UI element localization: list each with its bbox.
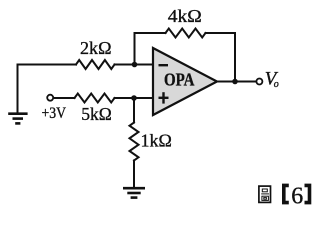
- caption: 【 bracket (drawn): [284, 185, 289, 202]
- node: non-inverting input junction: [131, 95, 137, 101]
- resistor R 4kΩ: [166, 29, 206, 38]
- wire: 1k resistor to bottom ground: [133, 161, 135, 188]
- resistor R 2kΩ: [76, 60, 115, 69]
- wire: 2k resistor to op-amp inverting input: [115, 64, 154, 66]
- svg-text:5kΩ: 5kΩ: [81, 104, 112, 124]
- wire: left horizontal to 2k resistor: [18, 64, 77, 66]
- node: output junction: [232, 79, 238, 85]
- wire: op-amp output to Vo terminal: [217, 81, 256, 83]
- caption: 圖 character (drawn): [259, 186, 271, 202]
- ground (bottom, below 1k): [123, 188, 145, 197]
- svg-text:4kΩ: 4kΩ: [168, 6, 202, 26]
- svg-text:o: o: [274, 79, 279, 90]
- resistor R 1kΩ: [130, 123, 139, 161]
- wire: 5k resistor to op-amp non-inverting input: [115, 97, 154, 99]
- svg-text:OPA: OPA: [164, 70, 195, 90]
- op-amp minus sign: [159, 64, 169, 66]
- svg-text:6: 6: [291, 184, 303, 210]
- svg-text:+3V: +3V: [42, 105, 67, 122]
- wire: +3V source to 5k resistor: [54, 97, 75, 99]
- terminal: +3V open circle: [47, 95, 53, 101]
- ground (left): [8, 114, 27, 124]
- wire: non-inverting node down to 1k resistor: [133, 98, 135, 123]
- terminal: Vo open circle: [256, 79, 262, 85]
- wire: feedback vertical down to output node: [234, 33, 236, 82]
- op-amp plus sign: [159, 92, 169, 103]
- node: inverting input junction: [132, 62, 138, 68]
- resistor R 5kΩ: [75, 94, 115, 103]
- wire: feedback top right segment: [206, 32, 236, 34]
- wire: feedback vertical up from inverting node: [134, 33, 136, 65]
- op-amp U1 triangle: [153, 48, 217, 115]
- svg-text:1kΩ: 1kΩ: [141, 130, 172, 150]
- svg-text:2kΩ: 2kΩ: [80, 38, 112, 58]
- caption: 】 bracket (drawn): [305, 185, 310, 202]
- wire: feedback top left segment: [135, 32, 166, 34]
- wire: left vertical to ground: [17, 65, 19, 113]
